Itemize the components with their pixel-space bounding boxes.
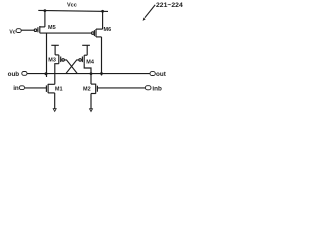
wire M4 gate cross-couple diagonal [66,60,79,73]
node Vcc-M5 junction dot [44,9,47,12]
wire Vc input to M5 gate [21,29,34,31]
terminal in pad [19,86,24,90]
node oub junction dot [45,72,48,75]
ground arrow M1 [53,109,56,112]
svg-text:oub: oub [8,71,20,78]
transistor M6 [92,29,103,37]
svg-text:M1: M1 [55,87,63,93]
svg-text:M6: M6 [104,27,112,33]
svg-text:221~224: 221~224 [156,2,183,9]
terminal oub pad [22,72,27,76]
wire M4 drain down [84,64,91,74]
svg-text:M2: M2 [83,87,91,93]
transistor M3 [51,45,64,63]
wire M3 drain down [55,64,59,74]
terminal inb pad [145,86,151,90]
svg-text:in: in [13,85,19,92]
node Vcc-M6 junction dot [101,10,104,13]
svg-text:M3: M3 [48,57,56,63]
ground arrow M2 [90,109,93,112]
terminal Vc pad [16,29,21,33]
node M4-M2 junction dot [90,72,93,75]
svg-text:M4: M4 [86,59,95,65]
wire M5 drain to M6 gate [40,32,92,34]
callout leader 221~224 [145,5,155,18]
wire M3 gate cross-couple diagonal [64,60,77,73]
svg-text:out: out [156,71,167,78]
transistor M2 [91,74,97,109]
wire Vcc rail [38,10,108,11]
svg-text:M5: M5 [48,25,56,31]
transistor M1 [46,74,54,109]
transistor M5 [34,26,45,33]
node M6-out junction dot [100,72,103,75]
wire M5 source drop [44,11,46,27]
wire M6 source drop [102,11,104,29]
wire M6 drain down to out node [101,37,103,76]
wire in to M1 gate [25,87,46,89]
svg-text:inb: inb [152,85,162,92]
svg-text:Vc: Vc [9,30,16,36]
wire output bus oub-out [27,73,150,75]
terminal out pad [150,72,155,76]
transistor M4 [79,45,90,64]
wire M2 gate to inb [97,87,145,89]
wire M5 drain down to oub node [46,33,48,77]
svg-text:Vcc: Vcc [67,3,77,9]
